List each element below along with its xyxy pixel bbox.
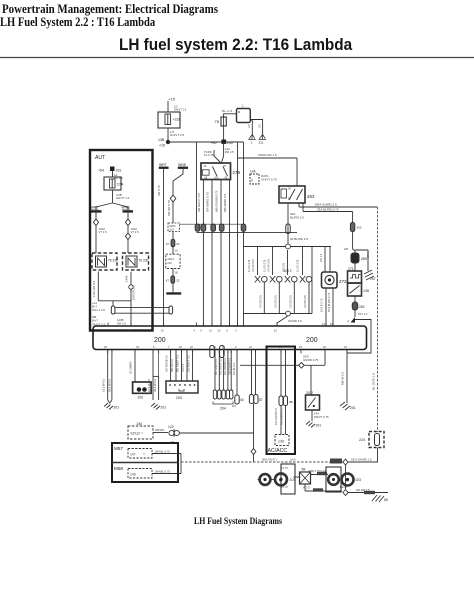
wire 269 branch to ground Z57 <box>355 250 370 271</box>
svg-text:DRA GN/RD 2.5: DRA GN/RD 2.5 <box>315 203 337 207</box>
svg-text:22: 22 <box>176 242 180 246</box>
wire 269 to lambda sond <box>354 263 356 271</box>
svg-text:=: = <box>143 453 145 457</box>
relay 279 <box>201 163 241 180</box>
sensor 138 <box>348 283 370 296</box>
svg-text:WNE: WNE <box>122 206 131 210</box>
svg-text:230: 230 <box>227 141 233 145</box>
wire ECU to fuse 27 <box>251 350 253 395</box>
svg-text:30: 30 <box>323 345 326 349</box>
labels lower AUT <box>92 301 126 327</box>
relay 76/230 b (dashed) inside AUT <box>123 253 149 270</box>
wire ECU to AC/ACC a <box>280 350 282 397</box>
svg-text:GR SB 0.75: GR SB 0.75 <box>304 295 307 308</box>
ground 211 <box>259 135 267 145</box>
svg-text:200: 200 <box>154 337 166 344</box>
svg-text:22: 22 <box>190 345 193 349</box>
node injector rail top junction <box>286 244 291 249</box>
svg-text:231: 231 <box>116 169 122 173</box>
connector 136 dashed <box>275 435 289 446</box>
wire ECU to 204 c <box>223 350 227 391</box>
svg-text:RO GN/VT 0.5: RO GN/VT 0.5 <box>219 358 223 375</box>
wire ECU to 204 d <box>228 350 232 391</box>
svg-text:1/3A GR 0.5: 1/3A GR 0.5 <box>92 280 96 297</box>
fuse pill 40 <box>235 395 244 404</box>
svg-text:GR W/RD 0.75: GR W/RD 0.75 <box>206 192 210 212</box>
connector 58 <box>300 468 311 485</box>
svg-text:87: 87 <box>259 398 263 402</box>
svg-text:W 2.5: W 2.5 <box>303 486 310 490</box>
wire 138 to fuse 262 <box>354 296 356 302</box>
svg-text:27A: 27A <box>117 183 124 187</box>
svg-text:76: 76 <box>108 259 112 263</box>
svg-text:201: 201 <box>161 406 167 410</box>
svg-text:(LH): (LH) <box>290 458 296 462</box>
svg-text:MB W/RD 0.5: MB W/RD 0.5 <box>223 193 227 212</box>
ground 2 <box>248 135 256 145</box>
node diamond on 202 feed <box>299 363 305 369</box>
svg-text:23: 23 <box>218 329 221 333</box>
svg-text:EDU2 =: EDU2 = <box>131 432 144 436</box>
connector pill pair linking AUT to harness <box>111 301 172 314</box>
wire 122 to accessory vertical <box>179 432 253 434</box>
svg-text:211: 211 <box>259 141 264 145</box>
svg-text:+54: +54 <box>98 169 104 173</box>
connector box 202 with terminals <box>129 350 151 400</box>
box AUT (ignition switch module) <box>90 150 153 331</box>
svg-text:5: 5 <box>153 345 155 349</box>
lambda sensor heater 269 <box>344 247 367 263</box>
svg-text:138: 138 <box>363 289 369 293</box>
svg-text:a 0.75: a 0.75 <box>281 466 289 470</box>
svg-text:87: 87 <box>224 165 227 168</box>
connector pill pair straddling ECU bottom edge <box>210 346 215 358</box>
wire M5x bracket join <box>180 454 182 474</box>
svg-text:7: 7 <box>168 345 170 349</box>
svg-text:BL/RD 2.5: BL/RD 2.5 <box>290 216 304 220</box>
svg-text:279: 279 <box>233 170 241 175</box>
svg-text:262: 262 <box>359 305 365 309</box>
svg-text:GN/VT 1.5: GN/VT 1.5 <box>116 196 130 200</box>
wire relay279 pin87b down to ECU <box>206 180 213 327</box>
svg-text:200: 200 <box>306 337 318 344</box>
svg-text:10: 10 <box>274 329 277 333</box>
svg-text:14A: 14A <box>250 170 257 174</box>
svg-text:NE W: NE W <box>340 485 347 489</box>
wire ECU to connector 203 pin5 <box>187 350 193 382</box>
header line 2 <box>0 14 155 30</box>
svg-text:33A BL/RD 0.75: 33A BL/RD 0.75 <box>317 208 339 212</box>
footer caption <box>194 517 282 527</box>
connector 203 <box>166 381 198 400</box>
lambda sensor 171 <box>348 267 362 283</box>
injector 1 <box>248 247 267 314</box>
injector 2 <box>264 247 283 314</box>
ground 201 far left <box>104 403 119 410</box>
svg-text:DR/VT 0.75: DR/VT 0.75 <box>314 415 329 419</box>
svg-text:2: 2 <box>251 141 253 145</box>
wire +30 down into relay 279 <box>222 126 235 163</box>
svg-text:16: 16 <box>249 345 252 349</box>
svg-text:KL 0.75: KL 0.75 <box>204 153 214 157</box>
wire pill b to terminal bar <box>172 283 174 292</box>
svg-text:87b: 87b <box>215 177 220 180</box>
fuse pill inside AC/ACC b <box>284 396 288 406</box>
svg-text:2: 2 <box>251 179 253 183</box>
svg-text:MB GR 0.5: MB GR 0.5 <box>170 359 174 372</box>
svg-text:DR 2.5: DR 2.5 <box>225 150 234 154</box>
wire ECU ground pair left <box>102 350 112 404</box>
svg-text:M58: M58 <box>114 466 123 471</box>
wire ECU to 204 b <box>219 350 223 391</box>
wire lower diamond to ground H65 <box>348 488 388 494</box>
wire fuse 27A down, splits to WRT/WNE bars <box>96 190 130 210</box>
svg-text:WRT: WRT <box>91 206 100 210</box>
svg-text:SB 0.75: SB 0.75 <box>157 185 161 196</box>
svg-text:MO GN/LI 0.5: MO GN/LI 0.5 <box>214 358 218 375</box>
svg-text:SB GR 0.75: SB GR 0.75 <box>167 200 171 216</box>
svg-text:22: 22 <box>176 279 180 283</box>
svg-text:GN/+1 2.5: GN/+1 2.5 <box>92 308 105 312</box>
svg-text:GR 1.5: GR 1.5 <box>319 253 323 262</box>
node +54 231 inside AUT <box>98 167 123 181</box>
separator rule under title <box>0 57 474 59</box>
motor circle A <box>258 474 271 485</box>
wire ECU to connector 203 pin2 <box>170 350 176 382</box>
wire pill to connector 1302 <box>173 247 178 254</box>
svg-text:GR 1: GR 1 <box>366 251 370 258</box>
pin stubs on ECU box 200 top edge <box>108 323 333 327</box>
wire from WNE bar down with diamond connector <box>167 169 183 223</box>
svg-text:10A GR 2.5: 10A GR 2.5 <box>132 285 136 300</box>
svg-text:65: 65 <box>384 498 388 502</box>
svg-text:GR: GR <box>258 124 261 128</box>
connector pill on wire x203 <box>201 224 206 231</box>
connector 122 <box>168 425 179 444</box>
svg-text:BL 15/75 1.5: BL 15/75 1.5 <box>372 373 376 390</box>
svg-text:GN/RD 0.75: GN/RD 0.75 <box>303 358 319 362</box>
wire ECU to relay 202 <box>240 350 325 396</box>
svg-text:30.6 W 0.5: 30.6 W 0.5 <box>153 378 157 392</box>
wire 58 to throttle cluster top <box>308 469 328 475</box>
svg-text:OR/RO: OR/RO <box>155 428 165 432</box>
svg-text:1: 1 <box>242 104 244 108</box>
pin numbers on ECU top edge <box>105 322 333 333</box>
node 13B +15 junction <box>158 138 170 148</box>
wire branch down x=237.5 <box>237 142 239 326</box>
node diamond lower <box>340 485 348 496</box>
svg-text:294 BL 0.75: 294 BL 0.75 <box>155 450 170 454</box>
node terminal bar WNE branch <box>166 292 181 294</box>
svg-text:257: 257 <box>370 277 376 281</box>
wire WNE branch with diamonds down to relay b <box>125 213 139 253</box>
fuse 22A <box>158 112 182 128</box>
svg-text:203: 203 <box>176 396 182 400</box>
svg-text:50.6 BL/RD 0.75: 50.6 BL/RD 0.75 <box>327 292 331 312</box>
relay 263 <box>279 186 315 203</box>
wire from +15 down to fuse 22A <box>167 101 169 112</box>
svg-text:272: 272 <box>339 279 347 284</box>
svg-text:+15: +15 <box>159 144 165 148</box>
wire injector rail right bracket <box>311 247 313 314</box>
svg-text:4: 4 <box>194 329 196 333</box>
connector 146 dashed <box>128 469 152 479</box>
svg-text:RO GN/SB 0.5: RO GN/SB 0.5 <box>274 407 278 425</box>
svg-text:SKT 1.0: SKT 1.0 <box>358 312 368 316</box>
pin numbers on ECU bottom edge <box>104 345 347 349</box>
wire connector 1302 to pill K70 22 b <box>173 269 178 276</box>
svg-text:201: 201 <box>114 406 120 410</box>
node diamond main accessory <box>343 458 372 466</box>
fuse pill 87 double <box>249 395 262 404</box>
svg-text:210: 210 <box>167 261 172 265</box>
node injector bottom junction <box>286 311 291 316</box>
svg-text:+30: +30 <box>211 141 217 145</box>
svg-text:b 0.75: b 0.75 <box>281 485 289 489</box>
wire ECU pin to ground 201 right <box>341 350 348 404</box>
wire box1 to grounds 2/211 <box>248 120 263 135</box>
motor 101 <box>275 466 296 489</box>
header line 1 <box>2 1 218 17</box>
wire diamond down to idle valve cluster <box>345 465 347 489</box>
connector K10 210 dashed <box>168 223 180 232</box>
wire relay a output <box>92 272 131 301</box>
svg-text:10.5 W 0.5: 10.5 W 0.5 <box>102 378 106 392</box>
throttle body frame <box>326 467 341 492</box>
connector pill on wire x245 <box>241 224 246 231</box>
fuse 75 <box>215 114 237 126</box>
svg-text:58: 58 <box>302 468 306 472</box>
svg-text:36A GN R 1: 36A GN R 1 <box>262 458 277 462</box>
fuse 224 <box>359 432 384 448</box>
wire shield to ECU right pin <box>347 320 371 354</box>
svg-text:VT 1.5: VT 1.5 <box>99 230 108 234</box>
svg-text:20: 20 <box>179 345 182 349</box>
svg-text:RO GN/RD 0.5: RO GN/RD 0.5 <box>280 407 284 425</box>
svg-text:31 GR 0.75: 31 GR 0.75 <box>264 259 267 272</box>
wire ECU to AC/ACC b <box>285 350 287 397</box>
box M57 M58 <box>112 443 178 482</box>
svg-text:d: d <box>347 319 349 323</box>
wire horizontal link y=232.6 <box>197 232 298 234</box>
svg-text:4: 4 <box>235 345 237 349</box>
wires pills to 136 <box>274 406 286 435</box>
svg-text:40: 40 <box>240 398 244 402</box>
connector 262 <box>352 302 364 310</box>
ground 201 right <box>340 402 356 410</box>
svg-text:240: 240 <box>137 422 143 426</box>
svg-text:33: 33 <box>136 345 139 349</box>
node WRT bar inside AUT <box>91 206 102 213</box>
svg-text:30.5 W 0.5: 30.5 W 0.5 <box>108 378 112 392</box>
connector pill on wire x212 <box>211 224 216 231</box>
svg-text:239: 239 <box>113 259 119 263</box>
node +15 supply top <box>169 98 187 112</box>
wire ECU to 204 e <box>231 350 236 391</box>
svg-text:GR RD/VT 0.5: GR RD/VT 0.5 <box>187 355 191 372</box>
svg-text:31 GR 0.75: 31 GR 0.75 <box>248 259 251 272</box>
svg-text:GN/RD 2.5: GN/RD 2.5 <box>288 319 302 323</box>
fuse 27A <box>104 177 124 190</box>
svg-text:ORRA RD 1.5: ORRA RD 1.5 <box>258 153 277 157</box>
svg-text:M: M <box>279 478 282 483</box>
motor 103 <box>342 474 362 486</box>
wire feed to AMM 272 <box>319 247 330 273</box>
node diamond on accessory wire <box>251 449 256 455</box>
svg-text:146: 146 <box>130 473 136 477</box>
wire branch down x=196.5 <box>196 142 198 224</box>
label chip on ACC wire <box>330 459 342 464</box>
wires AMM 272 down to ECU <box>320 288 334 326</box>
svg-text:230: 230 <box>143 259 149 263</box>
wire M57 lead <box>152 450 181 454</box>
wire bus y=142 from 13B to fuse75 branch <box>168 141 244 143</box>
svg-text:140A: 140A <box>125 275 129 282</box>
connector pill K70 22 b <box>166 276 180 283</box>
svg-text:136: 136 <box>278 440 284 444</box>
svg-text:GR SB 0.75: GR SB 0.75 <box>290 295 293 308</box>
connector row 204 <box>213 390 237 411</box>
svg-text:GN2: GN2 <box>331 460 338 464</box>
svg-text:75: 75 <box>215 119 220 124</box>
svg-text:MB W 2.5: MB W 2.5 <box>341 371 345 385</box>
svg-text:GR SB 0.75: GR SB 0.75 <box>260 295 263 308</box>
svg-text:AC/ACC: AC/ACC <box>268 448 288 454</box>
svg-text:1B: 1B <box>175 271 178 275</box>
box AC/ACC <box>267 347 296 455</box>
wire 58 bottom lead <box>303 484 342 492</box>
svg-text:SB GN/VT 0.5: SB GN/VT 0.5 <box>197 193 201 212</box>
svg-text:8: 8 <box>227 329 229 333</box>
svg-text:K7: K7 <box>166 279 170 283</box>
svg-text:AUT: AUT <box>95 155 105 161</box>
node WNE bar inside AUT <box>122 206 134 213</box>
svg-text:103: 103 <box>355 478 361 482</box>
svg-text:M: M <box>345 478 348 483</box>
wire branch down x=243.5 through injector rail to ECU <box>243 142 245 326</box>
wire ECU to fuse 40 <box>236 350 238 396</box>
svg-text:GN/VT 0.75: GN/VT 0.75 <box>261 178 277 182</box>
svg-text:18: 18 <box>299 345 302 349</box>
wire M58 lead <box>152 470 181 474</box>
wire EDU2 to connector 122 <box>153 428 168 433</box>
ECU box 200 <box>93 326 367 350</box>
svg-text:201: 201 <box>350 406 356 410</box>
svg-text:12: 12 <box>209 329 212 333</box>
svg-text:GR 2.5: GR 2.5 <box>117 322 126 326</box>
svg-text:31 GR 0.75: 31 GR 0.75 <box>297 259 300 272</box>
svg-text:GR: GR <box>344 247 348 251</box>
injector 3 <box>283 250 298 314</box>
wire fuse 87 down to accessory node <box>253 404 255 462</box>
wire ECU to connector 203 pin4 <box>181 350 187 382</box>
svg-text:GR SB 0.75: GR SB 0.75 <box>275 295 278 308</box>
wire injector top rail <box>244 246 332 248</box>
page title <box>119 36 352 55</box>
node WRT bar <box>159 163 169 169</box>
device frame of motor 101 <box>281 464 295 494</box>
svg-text:13B: 13B <box>158 138 165 142</box>
wire A to B <box>270 479 275 481</box>
svg-text:201: 201 <box>316 424 322 428</box>
svg-text:224: 224 <box>359 438 365 442</box>
svg-text:147: 147 <box>130 453 136 457</box>
svg-text:294 BL 0.75: 294 BL 0.75 <box>155 470 170 474</box>
air mass meter 272 <box>322 272 348 288</box>
wire fuse 224 to diamond node <box>348 448 378 463</box>
wire ECU to connector 203 pin3 <box>176 350 182 382</box>
wire from WRT bar down to ECU <box>157 169 164 326</box>
svg-text:SE A GN/RD 1.5: SE A GN/RD 1.5 <box>351 458 372 462</box>
svg-text:VO 0.5: VO 0.5 <box>181 363 185 372</box>
svg-text:VT 2.5: VT 2.5 <box>131 230 140 234</box>
connector box 1 top right <box>237 104 251 123</box>
wire ECU feed below bottom rail <box>277 316 288 326</box>
svg-text:202: 202 <box>138 396 144 400</box>
relay 76/239 a (dashed) inside AUT <box>92 253 118 270</box>
wire injector bottom rail <box>244 313 313 315</box>
wire relay279 pin30 down to ECU <box>223 180 230 327</box>
svg-text:+22A: +22A <box>173 118 182 122</box>
ground 201 under relay 202 <box>306 421 321 428</box>
wire relay279 pin86 down to ECU <box>215 180 222 327</box>
svg-text:GR 0.75: GR 0.75 <box>283 262 286 272</box>
svg-text:GR SB 0.75: GR SB 0.75 <box>268 259 271 272</box>
connector 14A <box>250 170 277 185</box>
wire long fuel pump feed down right side <box>372 207 378 432</box>
wire relay 202 to ground <box>312 410 329 421</box>
wire into pill K70 22 <box>172 232 174 240</box>
svg-text:GN/VT 2.5: GN/VT 2.5 <box>170 133 184 137</box>
wire relay279 pin85 down to ECU <box>197 180 203 327</box>
wire 58 into motor101 frame <box>294 476 300 478</box>
connector 147 dashed <box>128 449 152 459</box>
svg-text:RO OR/SB 0.5: RO OR/SB 0.5 <box>223 357 227 375</box>
ground 201 second <box>151 403 166 410</box>
motor circle C <box>328 474 339 485</box>
svg-text:9B: 9B <box>289 400 293 404</box>
connector 1302 210 dashed <box>166 254 180 268</box>
wire +54 to fuse 27A <box>112 171 114 177</box>
shield drain arrow junction <box>347 317 355 323</box>
wire relay 263 pin87 down to injector rail <box>286 203 309 244</box>
svg-text:K7: K7 <box>166 242 170 246</box>
pin stubs on ECU box 200 bottom edge <box>108 350 347 354</box>
svg-text:3: 3 <box>235 329 237 333</box>
wire ECU second ground leads (pair) <box>147 350 159 401</box>
svg-text:9: 9 <box>200 329 202 333</box>
svg-text:30: 30 <box>288 187 291 191</box>
svg-text:101: 101 <box>290 478 296 482</box>
wire fuse 22A to node 13B <box>168 128 184 142</box>
wire TORK lead into relay 279 <box>204 150 221 163</box>
svg-text:WRT: WRT <box>159 163 168 167</box>
svg-text:1A: 1A <box>175 249 178 253</box>
svg-text:MO RD/VT 0.5: MO RD/VT 0.5 <box>176 354 180 372</box>
svg-text:210: 210 <box>169 228 174 232</box>
svg-text:+15: +15 <box>169 98 175 102</box>
node +30 230 <box>211 140 233 146</box>
svg-text:GR SB 0.75: GR SB 0.75 <box>252 259 255 272</box>
svg-text:76: 76 <box>139 259 143 263</box>
svg-text:122: 122 <box>168 425 174 429</box>
svg-text:19: 19 <box>161 329 164 333</box>
wire WRT branch with diamonds down to relay a <box>93 213 107 253</box>
svg-text:GN BL 0.5: GN BL 0.5 <box>232 362 236 375</box>
svg-text:263: 263 <box>307 194 315 199</box>
connector pill on wire x221 <box>219 224 224 231</box>
ground 257 <box>364 270 376 281</box>
